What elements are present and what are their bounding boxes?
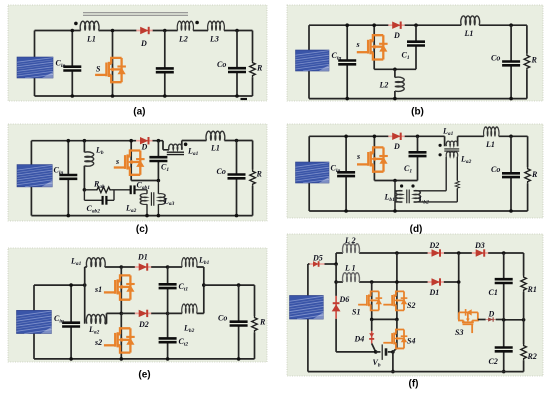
wire left vertical to D6 bbox=[335, 264, 337, 296]
node dot Cin bottom bbox=[345, 97, 349, 101]
node dot S4 bottom bbox=[391, 370, 395, 374]
MOSFET S bbox=[95, 58, 126, 82]
node dot Co bottom bbox=[235, 94, 239, 98]
svg-text:R: R bbox=[531, 56, 538, 65]
svg-text:L1: L1 bbox=[210, 144, 220, 153]
MOSFET s1 wire bbox=[120, 267, 122, 313]
node dot Cin bottom bbox=[344, 209, 348, 213]
wire top rail bbox=[35, 30, 253, 32]
wire bottom rail bbox=[308, 371, 524, 373]
svg-text:D2: D2 bbox=[138, 320, 149, 329]
node dot battery right bbox=[391, 350, 395, 354]
inductor La1 bbox=[169, 144, 182, 150]
PV module bbox=[290, 296, 324, 320]
transformer winding Lb2 bbox=[414, 191, 421, 203]
node dot Co bottom bbox=[235, 214, 239, 218]
node dot D5 right bbox=[334, 262, 338, 266]
svg-text:D2: D2 bbox=[429, 241, 440, 250]
node dot mid C bbox=[502, 318, 506, 322]
panel b background bbox=[287, 5, 543, 101]
wire node line s source bbox=[374, 180, 417, 182]
node dot S bottom bbox=[111, 94, 115, 98]
MOSFET S2 bbox=[383, 291, 407, 310]
wire bottom rail bbox=[309, 98, 527, 100]
node dot battery left bbox=[374, 350, 378, 354]
node dot La2 bottom bbox=[145, 214, 149, 218]
polarity dot La1 bbox=[184, 143, 188, 147]
svg-text:C1: C1 bbox=[489, 288, 498, 297]
capacitor Cab1 bbox=[131, 185, 135, 194]
svg-text:(c): (c) bbox=[136, 224, 148, 235]
svg-text:D4: D4 bbox=[354, 335, 365, 344]
wire output rail bbox=[204, 284, 255, 286]
node dot Cin top bbox=[69, 283, 73, 287]
node dot Ct top bbox=[157, 139, 161, 143]
node dot Ct1 bottom bbox=[166, 312, 170, 316]
transformer core bars bbox=[407, 190, 409, 204]
capacitor C1 bbox=[415, 25, 417, 69]
node dot Co top bbox=[235, 139, 239, 143]
svg-text:L1: L1 bbox=[485, 140, 495, 149]
MOSFET s2 wire bbox=[120, 313, 122, 359]
resistor R1 bbox=[523, 253, 525, 320]
node dot s1 top bbox=[120, 265, 124, 269]
node dot s top bbox=[372, 23, 376, 27]
MOSFET S1 bbox=[358, 291, 382, 310]
polarity dot L1 bbox=[74, 22, 78, 26]
diode D2 bbox=[428, 249, 444, 256]
panel c background bbox=[8, 124, 267, 221]
node dot Rab left bbox=[83, 188, 87, 192]
capacitor mid bbox=[164, 31, 166, 97]
wire top rail bbox=[31, 141, 252, 150]
inductor Lb bbox=[83, 141, 85, 190]
resistor La2 leg bbox=[456, 157, 458, 202]
resistor R bbox=[252, 31, 254, 97]
svg-text:R: R bbox=[259, 318, 266, 327]
diode D3 bbox=[472, 249, 488, 256]
svg-text:(a): (a) bbox=[133, 107, 145, 118]
node dot Co bottom bbox=[509, 209, 513, 213]
panel d background bbox=[287, 124, 543, 218]
resistor R bbox=[252, 141, 254, 216]
svg-text:S2: S2 bbox=[407, 301, 415, 310]
wire left branch bbox=[308, 25, 310, 98]
capacitor Co bbox=[236, 141, 238, 216]
node dot s top bbox=[373, 135, 377, 139]
capacitor Co bbox=[236, 31, 238, 97]
node dot D1 right bbox=[457, 280, 461, 284]
MOSFET s wire bbox=[373, 136, 375, 180]
transformer winding La3 bbox=[157, 181, 159, 194]
wire input rail bbox=[34, 284, 85, 286]
inductor La2 bbox=[86, 314, 105, 323]
wire left vertical PV bbox=[307, 264, 309, 372]
panel f background bbox=[287, 234, 543, 376]
svg-text:R: R bbox=[531, 170, 538, 179]
inductor Lb2 bbox=[168, 285, 204, 313]
node dot Ct1 top bbox=[166, 265, 170, 269]
wire mid rail bbox=[372, 318, 397, 320]
diode D1 bbox=[121, 266, 167, 268]
wire left branch bbox=[34, 31, 36, 97]
inductor L1 bbox=[80, 21, 99, 30]
inductor L1 bbox=[461, 16, 480, 25]
svg-text:R: R bbox=[256, 64, 263, 73]
wire left branch bbox=[30, 141, 32, 216]
resistor Rab bbox=[84, 189, 130, 191]
svg-text:D: D bbox=[393, 31, 400, 40]
wire Lb2 top to La2 bbox=[414, 157, 447, 191]
node dot L2 top bbox=[393, 68, 397, 72]
inductor L1 bbox=[336, 281, 428, 283]
capacitor C2 bbox=[503, 320, 505, 372]
PV module bbox=[296, 50, 329, 71]
MOSFET S4 wire bbox=[393, 319, 397, 371]
core bars La1 bbox=[167, 152, 184, 154]
capacitor Cin bbox=[345, 136, 347, 211]
svg-text:Co: Co bbox=[491, 165, 500, 174]
node dot mid bottom bbox=[163, 94, 167, 98]
wire Cab1 to transformer bbox=[136, 190, 148, 194]
wire bottom rail bbox=[309, 210, 527, 212]
node dot Ct2 bottom bbox=[166, 357, 170, 361]
inductor L2 bbox=[394, 69, 396, 98]
node dot mid bbox=[120, 312, 124, 316]
node dot mid right bbox=[395, 318, 399, 322]
node dot s source bbox=[157, 179, 161, 183]
svg-text:(d): (d) bbox=[410, 224, 423, 235]
node dot s top bbox=[129, 139, 133, 143]
wire La branch vertical bbox=[84, 267, 86, 324]
node dot Ct top bbox=[416, 135, 420, 139]
panel e background bbox=[8, 248, 267, 362]
diode D bbox=[486, 317, 496, 321]
node dot output rail left bbox=[202, 283, 206, 287]
wire top rail bbox=[309, 136, 527, 146]
capacitor Ct1 bbox=[167, 267, 169, 313]
node dot S2 top rail bbox=[395, 251, 399, 255]
MOSFET s wire bbox=[130, 141, 132, 181]
inductor Lb1 bbox=[168, 267, 204, 285]
node dot Cin bottom bbox=[67, 214, 71, 218]
svg-text:L2: L2 bbox=[178, 35, 188, 44]
MOSFET S2 wire bbox=[396, 253, 398, 319]
node dot Co top bbox=[235, 29, 239, 33]
PV module bbox=[17, 165, 52, 187]
node dot mid top bbox=[163, 29, 167, 33]
wire left branch bbox=[308, 136, 310, 211]
node dot Cin bottom bbox=[69, 357, 73, 361]
node dot L2 bottom bbox=[393, 97, 397, 101]
polarity dot L2 bbox=[195, 21, 199, 25]
PV module bbox=[17, 57, 53, 78]
capacitor Co bbox=[238, 285, 240, 359]
node dot s2 bottom bbox=[120, 357, 124, 361]
node dot Cin top bbox=[345, 23, 349, 27]
wire S3 to D bbox=[478, 319, 486, 321]
svg-text:L 2: L 2 bbox=[344, 236, 356, 245]
svg-text:D1: D1 bbox=[429, 288, 440, 297]
svg-text:D: D bbox=[488, 310, 495, 319]
wire mid node line bbox=[504, 319, 524, 321]
node dot Cin top bbox=[344, 135, 348, 139]
capacitor Cin bbox=[346, 25, 348, 98]
wire D6 bottom to battery bbox=[336, 351, 376, 353]
battery Vb bbox=[376, 351, 381, 353]
svg-text:s1: s1 bbox=[94, 285, 102, 294]
node dot Co bottom bbox=[237, 357, 241, 361]
node dot C1 top bbox=[502, 251, 506, 255]
MOSFET s bbox=[357, 35, 388, 59]
wire D to mid node bbox=[496, 319, 504, 321]
wire Lb vertical bbox=[394, 181, 396, 212]
wire bottom rail bbox=[31, 215, 252, 217]
node dot Lb bottom bbox=[393, 209, 397, 213]
diode D1 bbox=[428, 278, 444, 285]
node dot L1 rail bbox=[334, 280, 338, 284]
svg-text:D3: D3 bbox=[474, 241, 485, 250]
svg-text:R2: R2 bbox=[527, 352, 537, 361]
capacitor C1 bbox=[417, 136, 419, 180]
svg-text:Co: Co bbox=[491, 54, 500, 63]
coupled-inductor core bars over L1-L2 bbox=[83, 13, 188, 16]
node dot Lb top bbox=[83, 139, 87, 143]
inductor L1 bbox=[484, 127, 499, 136]
MOSFET s1 bbox=[104, 275, 135, 299]
wire node line bbox=[374, 68, 416, 70]
transformer winding La2 bbox=[140, 194, 147, 205]
svg-text:s2: s2 bbox=[94, 338, 102, 347]
svg-text:L1: L1 bbox=[464, 29, 474, 38]
svg-text:s: s bbox=[115, 157, 119, 166]
wire left branch bbox=[33, 285, 35, 359]
node dot mid left bbox=[370, 318, 374, 322]
node dot S2 drain bbox=[395, 280, 399, 284]
node dot Cin top bbox=[71, 29, 75, 33]
node dot Cin top bbox=[67, 139, 71, 143]
resistor R2 bbox=[523, 320, 525, 372]
node dot La3 bottom bbox=[157, 214, 161, 218]
polarity dot Lb2 bbox=[411, 184, 414, 187]
coupled inductor La2 bbox=[446, 152, 458, 157]
diode D4 bbox=[371, 319, 373, 331]
node dot C1 top bbox=[414, 23, 418, 27]
diode D bbox=[388, 133, 404, 140]
PV module bbox=[296, 162, 329, 183]
svg-text:D: D bbox=[393, 142, 400, 151]
svg-text:Co: Co bbox=[217, 60, 226, 69]
wire bottom rail bbox=[35, 95, 253, 97]
svg-text:D: D bbox=[140, 39, 147, 48]
node dot mid R bbox=[522, 318, 526, 322]
capacitor Cin bbox=[70, 285, 72, 359]
polarity dot La2 bbox=[439, 153, 442, 156]
node dot C2 bottom bbox=[502, 370, 506, 374]
transformer core bars bbox=[151, 192, 153, 206]
inductor L1 bbox=[206, 131, 225, 140]
svg-text:D1: D1 bbox=[137, 253, 148, 262]
node dot Co top bbox=[509, 135, 513, 139]
svg-text:D: D bbox=[141, 143, 148, 152]
MOSFET s bbox=[357, 147, 388, 171]
diode D6 bbox=[335, 296, 337, 319]
svg-text:L1: L1 bbox=[86, 35, 96, 44]
svg-text:(e): (e) bbox=[138, 370, 150, 381]
svg-text:S1: S1 bbox=[352, 308, 360, 317]
diode D bbox=[136, 137, 152, 144]
capacitor C1 bbox=[503, 253, 505, 320]
MOSFET S3 bbox=[459, 309, 478, 333]
PV module bbox=[17, 310, 52, 333]
MOSFET s2 bbox=[104, 328, 135, 352]
panel a background bbox=[8, 5, 267, 101]
MOSFET s bbox=[114, 151, 145, 175]
polarity dot Lb1 bbox=[400, 184, 403, 187]
resistor R bbox=[527, 136, 529, 211]
svg-text:C2: C2 bbox=[489, 357, 498, 366]
svg-text:s: s bbox=[356, 40, 360, 49]
core bars La1-La2 bbox=[444, 149, 459, 151]
diode D bbox=[388, 22, 404, 29]
wire top rail bbox=[336, 253, 523, 264]
MOSFET S1 wire bbox=[371, 282, 373, 319]
svg-text:(b): (b) bbox=[411, 107, 424, 118]
inductor L2 bbox=[343, 244, 360, 253]
capacitor Co bbox=[510, 136, 512, 211]
svg-text:L2: L2 bbox=[379, 81, 389, 90]
polarity dot La1 bbox=[439, 144, 442, 147]
inductor La1 bbox=[85, 266, 122, 268]
svg-text:s: s bbox=[356, 152, 360, 161]
svg-text:D6: D6 bbox=[339, 295, 350, 304]
MOSFET S4 bbox=[383, 330, 407, 349]
svg-text:(f): (f) bbox=[409, 379, 419, 390]
svg-text:Co: Co bbox=[217, 167, 226, 176]
svg-text:L 1: L 1 bbox=[344, 264, 356, 273]
ground tick bbox=[241, 98, 248, 100]
svg-text:R: R bbox=[256, 170, 263, 179]
inductor L2 bbox=[177, 21, 193, 30]
node dot s source bbox=[393, 179, 397, 183]
resistor R bbox=[526, 25, 528, 98]
svg-text:S: S bbox=[96, 65, 101, 74]
node dot Co top bbox=[237, 283, 241, 287]
diode D2 bbox=[121, 312, 167, 314]
wire S3 vertical bbox=[444, 253, 459, 320]
capacitor Co bbox=[510, 25, 512, 98]
inductor L3 bbox=[208, 21, 225, 30]
svg-text:R1: R1 bbox=[527, 285, 537, 294]
coupled inductor La1 bbox=[446, 141, 458, 146]
capacitor Cin bbox=[71, 31, 73, 97]
wire Lb2 bottom line bbox=[414, 201, 458, 203]
capacitor Cab2 bbox=[84, 190, 114, 201]
svg-text:L3: L3 bbox=[209, 35, 219, 44]
svg-text:D5: D5 bbox=[312, 254, 323, 263]
svg-text:S4: S4 bbox=[407, 337, 415, 346]
node dot S1 drain bbox=[370, 280, 374, 284]
capacitor C1 bbox=[157, 141, 159, 181]
diode D bbox=[136, 27, 152, 34]
capacitor Cin bbox=[67, 141, 69, 216]
resistor R bbox=[254, 285, 256, 359]
node dot Co bottom bbox=[509, 97, 513, 101]
node dot branch bbox=[83, 283, 87, 287]
svg-text:Co: Co bbox=[218, 314, 227, 323]
svg-text:S3: S3 bbox=[455, 328, 463, 337]
wire node line s source bbox=[131, 180, 158, 182]
MOSFET s wire bbox=[373, 25, 375, 69]
diode D5 bbox=[308, 263, 336, 265]
capacitor Ct2 bbox=[167, 313, 169, 359]
node dot S top bbox=[111, 29, 115, 33]
wire bottom rail bbox=[34, 358, 255, 360]
wire top rail bbox=[309, 24, 527, 26]
MOSFET S wire bbox=[112, 31, 114, 97]
node dot Cin bottom bbox=[71, 94, 75, 98]
transformer winding Lb1 bbox=[395, 191, 402, 202]
node dot D2 right bbox=[457, 251, 461, 255]
node dot Co top bbox=[509, 23, 513, 27]
